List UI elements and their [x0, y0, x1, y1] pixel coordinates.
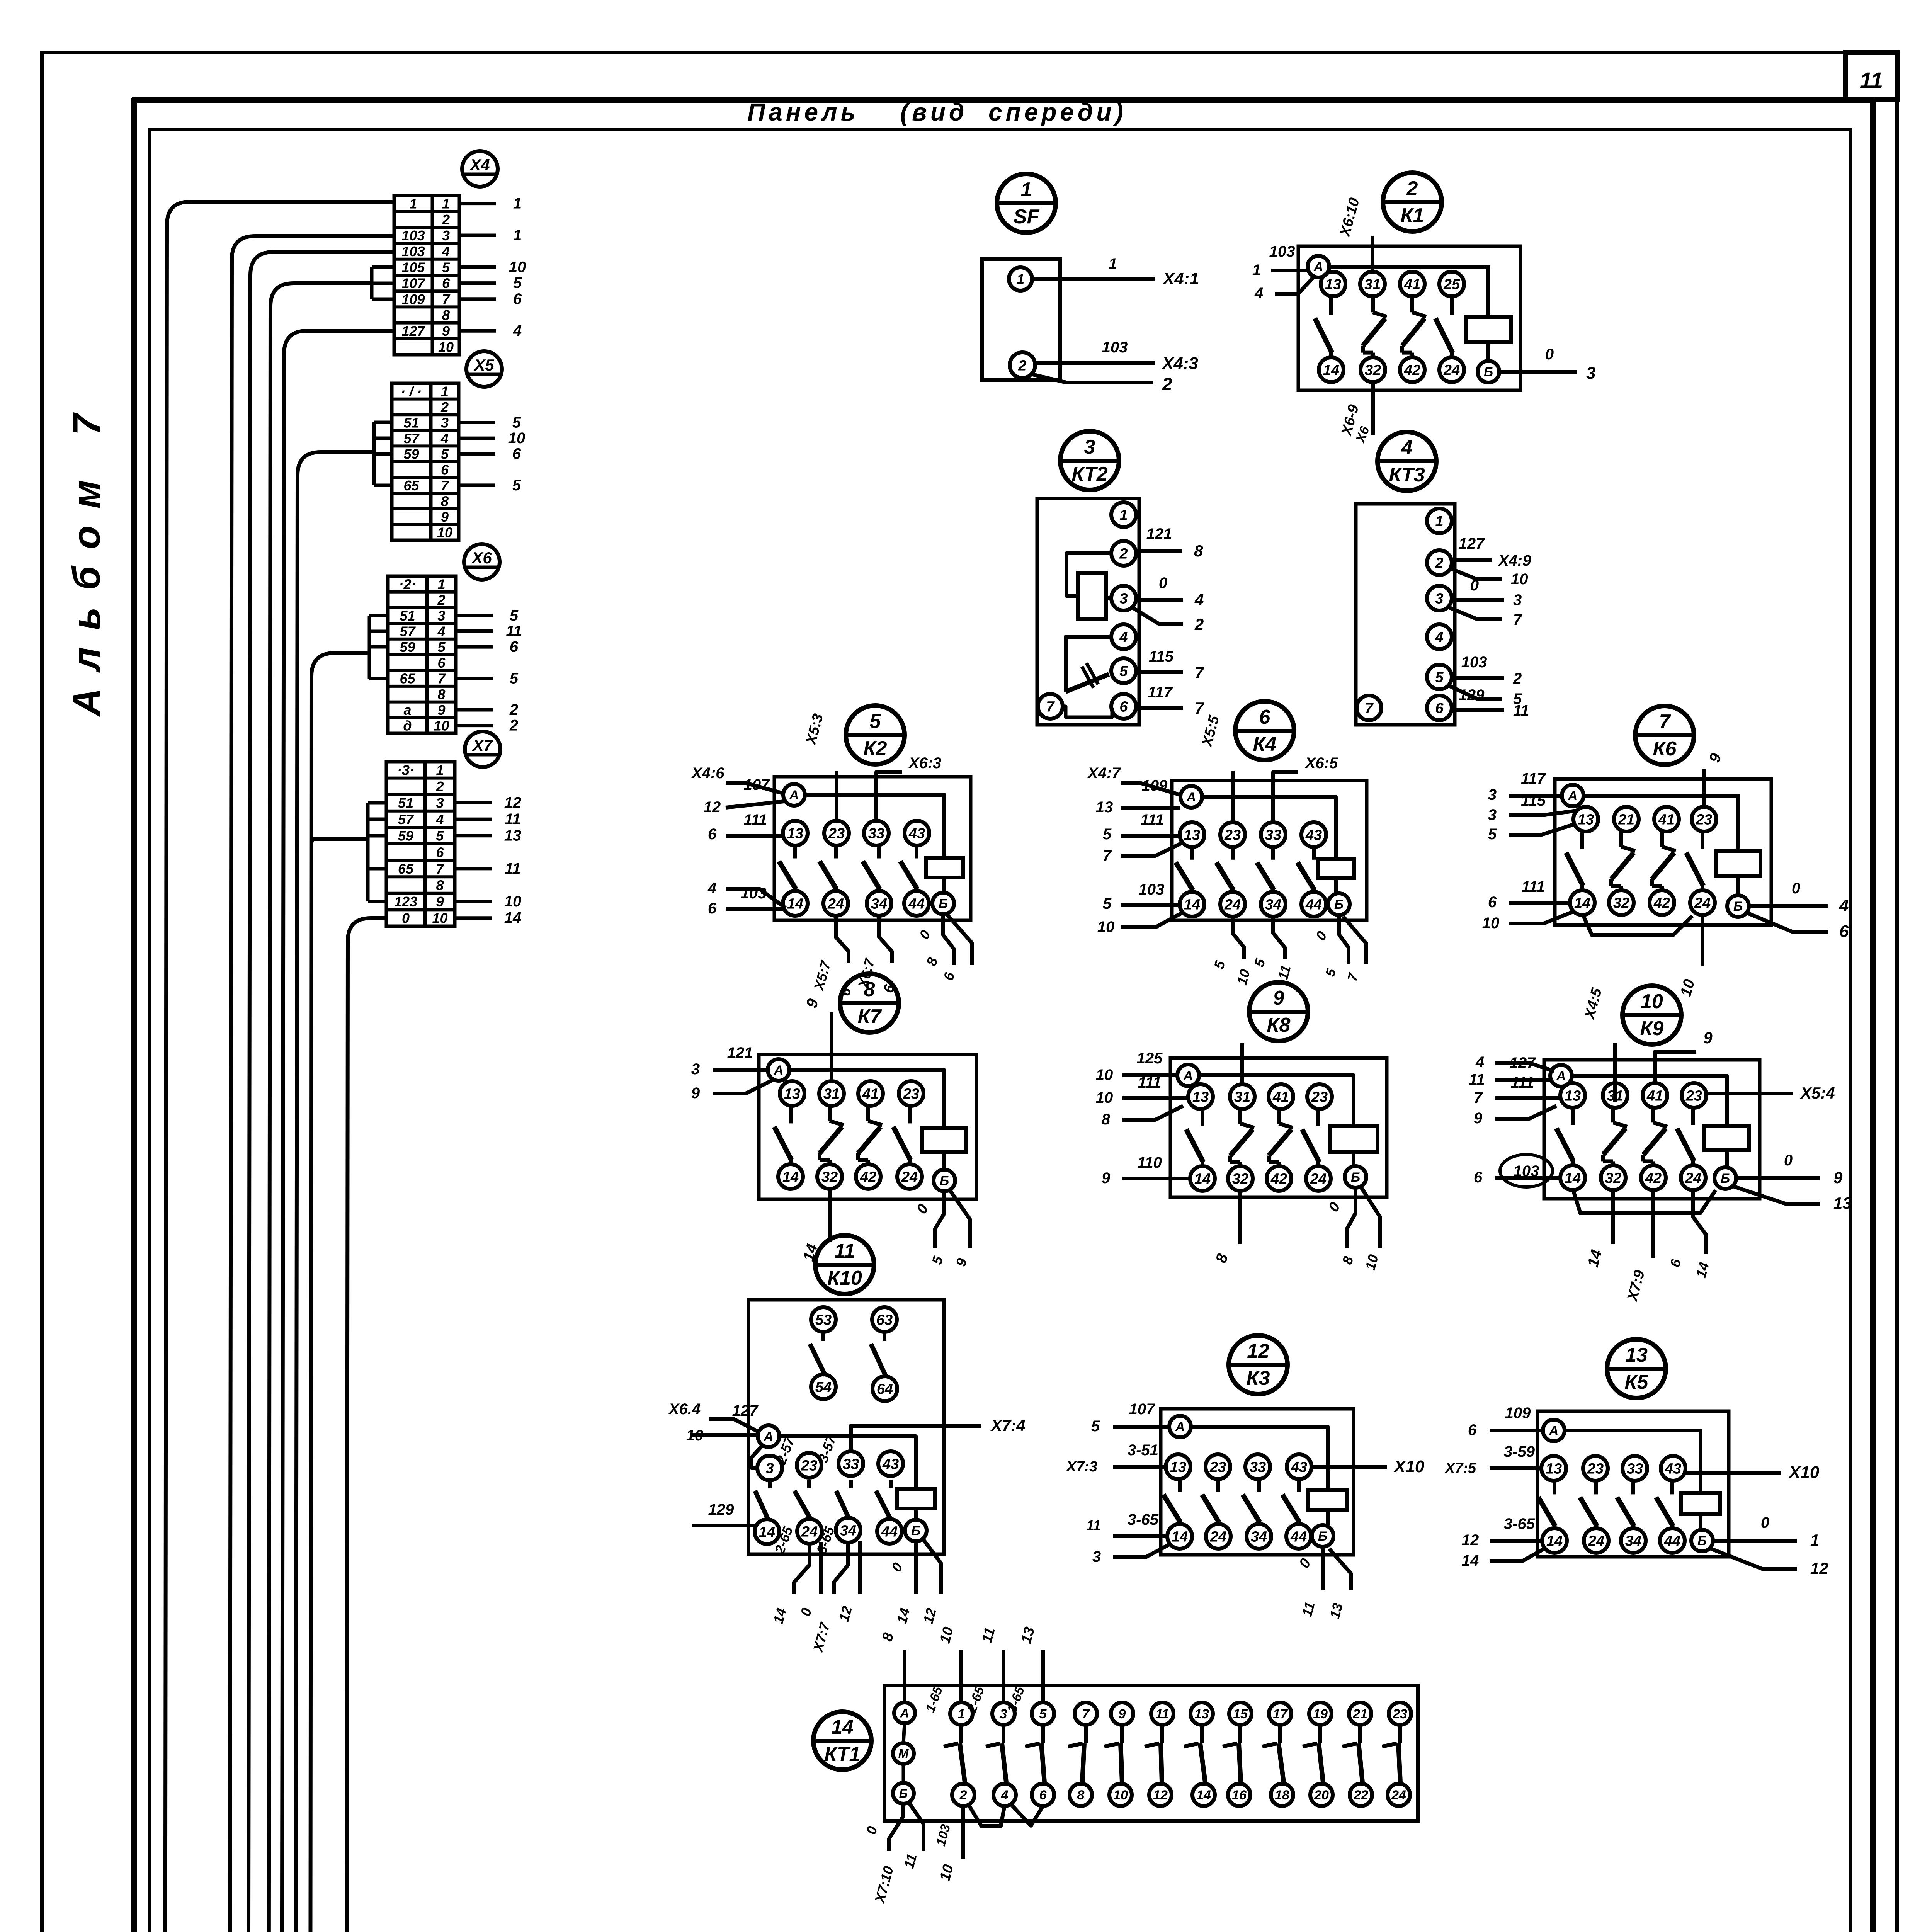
svg-text:10: 10	[1096, 1089, 1113, 1106]
svg-text:5: 5	[436, 828, 444, 844]
SF wire pin1 to X4:1	[1032, 277, 1155, 281]
К7 pin 23	[899, 1081, 923, 1106]
svg-text:А: А	[1186, 790, 1196, 804]
svg-text:7: 7	[442, 291, 451, 307]
KT2 pin 3	[1111, 586, 1136, 611]
K4 wire up from 23 with X5:5	[1231, 771, 1235, 824]
К8 wire A to coil	[1199, 1075, 1354, 1126]
svg-text:24: 24	[1588, 1533, 1604, 1549]
svg-text:К1: К1	[1401, 204, 1424, 227]
К4 contact 3	[1271, 846, 1275, 860]
К3 pin 43	[1287, 1454, 1311, 1479]
svg-text:64: 64	[877, 1381, 893, 1398]
svg-text:4: 4	[1001, 1788, 1009, 1803]
K10 pin 53	[811, 1307, 836, 1332]
svg-text:А: А	[1556, 1069, 1566, 1083]
svg-text:Б: Б	[1697, 1534, 1707, 1548]
K6 left wires	[1509, 794, 1562, 798]
svg-text:5: 5	[441, 446, 449, 462]
К7 pin 32	[817, 1164, 842, 1189]
KT1 pin 5	[1032, 1702, 1054, 1725]
svg-text:5: 5	[1435, 670, 1444, 686]
K7 wires from B	[935, 1191, 944, 1248]
K6 lower link 14 to 24	[1582, 913, 1692, 935]
K10 pin 3	[757, 1456, 782, 1480]
K9 wire up from 31 with X4:5	[1613, 1043, 1617, 1102]
svg-text:110: 110	[1137, 1154, 1162, 1171]
svg-text:115: 115	[1521, 792, 1546, 809]
K6 wires from B	[1749, 904, 1828, 908]
svg-text:X10: X10	[1788, 1463, 1820, 1482]
К9 pin 31	[1603, 1083, 1628, 1108]
К9 pin 13	[1560, 1083, 1585, 1108]
svg-text:43: 43	[1305, 827, 1322, 844]
svg-text:А: А	[764, 1429, 774, 1444]
svg-text:14: 14	[1172, 1529, 1188, 1545]
svg-text:59: 59	[403, 446, 419, 462]
svg-text:109: 109	[1505, 1405, 1531, 1422]
svg-text:К5: К5	[1625, 1371, 1649, 1393]
K1 wire from B with 0 3	[1499, 370, 1577, 374]
К1 pin 41	[1400, 272, 1425, 296]
svg-text:А: А	[1175, 1420, 1185, 1434]
К3 contact 3	[1257, 1478, 1261, 1492]
svg-text:13: 13	[1194, 1707, 1209, 1721]
К5 contact 2	[1594, 1480, 1598, 1494]
svg-text:103: 103	[1461, 654, 1487, 671]
svg-text:51: 51	[400, 608, 415, 624]
К1 pin 24	[1439, 357, 1464, 382]
svg-text:23: 23	[903, 1086, 919, 1102]
svg-text:3: 3	[1084, 436, 1095, 458]
KT1 contacts	[959, 1725, 963, 1743]
К8 pin 24	[1306, 1166, 1331, 1191]
svg-text:X10: X10	[1393, 1457, 1425, 1476]
svg-text:Б: Б	[1733, 899, 1743, 914]
terminal block id circle X7	[465, 731, 500, 767]
K8 wire down from 32	[1238, 1190, 1242, 1244]
К8 pin 41	[1269, 1084, 1293, 1109]
К8 contact 1	[1201, 1108, 1204, 1126]
svg-text:4: 4	[1194, 590, 1204, 609]
svg-text:105: 105	[401, 259, 425, 275]
svg-text:32: 32	[1613, 895, 1629, 912]
К2 contact 2	[834, 845, 838, 859]
К4 wire A to coil	[1202, 797, 1336, 859]
svg-text:5: 5	[510, 670, 519, 687]
svg-text:115: 115	[1149, 648, 1174, 665]
К2 pin 43	[905, 821, 929, 845]
svg-text:11: 11	[506, 622, 522, 639]
svg-text:129: 129	[708, 1501, 734, 1518]
svg-text:6: 6	[1468, 1422, 1477, 1439]
svg-text:7: 7	[1365, 701, 1374, 717]
svg-text:3: 3	[1488, 786, 1497, 803]
svg-text:11: 11	[1155, 1707, 1169, 1721]
svg-text:11: 11	[1513, 702, 1529, 719]
svg-text:X7:3: X7:3	[1066, 1459, 1097, 1475]
svg-text:11: 11	[505, 860, 521, 877]
svg-text:8: 8	[441, 493, 449, 509]
svg-text:5: 5	[513, 275, 522, 292]
svg-text:6: 6	[437, 655, 446, 671]
wire X4:6 to 104	[270, 283, 372, 306]
К5 pin 14	[1542, 1528, 1567, 1553]
svg-text:44: 44	[1305, 897, 1322, 913]
svg-text:33: 33	[868, 826, 884, 842]
svg-text:14: 14	[1546, 1533, 1563, 1549]
KT2 right labels	[1135, 549, 1182, 553]
svg-text:12: 12	[704, 799, 721, 816]
svg-text:23: 23	[1311, 1089, 1328, 1105]
К2 wire coil to B	[942, 878, 946, 893]
svg-text:24: 24	[901, 1169, 918, 1185]
К1 wire coil to B	[1486, 342, 1490, 361]
svg-text:121: 121	[1146, 526, 1172, 543]
KT1 pin 18	[1271, 1784, 1293, 1806]
svg-text:117: 117	[1148, 684, 1173, 701]
KT1 wires up from 1 3 5	[959, 1650, 963, 1702]
K10 pin 54	[811, 1374, 836, 1399]
svg-text:3: 3	[1092, 1548, 1101, 1565]
svg-text:X4: X4	[469, 156, 490, 174]
К7 pin 42	[856, 1164, 881, 1189]
svg-text:8: 8	[1194, 542, 1203, 560]
svg-text:1: 1	[1109, 255, 1117, 272]
svg-text:6: 6	[441, 462, 449, 478]
svg-text:107: 107	[401, 276, 425, 291]
svg-text:42: 42	[1653, 895, 1670, 912]
svg-text:13: 13	[1565, 1088, 1581, 1104]
svg-text:4: 4	[1401, 437, 1413, 459]
svg-text:8: 8	[864, 978, 875, 1001]
К9 pin 42	[1641, 1165, 1666, 1190]
svg-text:А: А	[1568, 789, 1578, 803]
svg-text:43: 43	[1291, 1459, 1307, 1476]
svg-text:3: 3	[442, 228, 450, 243]
K9 wire up from 41 with 9	[1655, 1052, 1696, 1085]
К7 pin 24	[897, 1164, 922, 1189]
svg-text:8: 8	[436, 878, 444, 893]
svg-text:X4:9: X4:9	[1498, 552, 1531, 569]
svg-text:2: 2	[1194, 615, 1204, 633]
svg-text:34: 34	[1251, 1529, 1267, 1545]
svg-text:127: 127	[1459, 535, 1485, 552]
svg-text:43: 43	[908, 826, 925, 842]
К1 pin A	[1308, 256, 1329, 277]
K9 lower link 14	[1573, 1189, 1716, 1213]
svg-text:13: 13	[1546, 1461, 1562, 1477]
К3 coil	[1308, 1490, 1347, 1510]
svg-text:3-65: 3-65	[1128, 1511, 1159, 1528]
svg-text:14: 14	[504, 910, 522, 927]
terminal block id circle X6	[464, 544, 500, 580]
svg-text:10: 10	[434, 718, 449, 734]
KT3 pin 7	[1357, 696, 1381, 720]
component id circle К10	[815, 1235, 874, 1294]
К7 pin B	[934, 1170, 955, 1191]
К8 pin B	[1345, 1166, 1366, 1188]
svg-text:5: 5	[512, 414, 521, 431]
svg-text:13: 13	[1096, 799, 1113, 816]
К1 pin 25	[1439, 272, 1464, 296]
KT2 wire 6-7 link	[1062, 706, 1112, 717]
К1 wire A to coil	[1329, 267, 1488, 317]
svg-text:2: 2	[1018, 358, 1026, 374]
svg-text:9: 9	[436, 894, 444, 910]
svg-text:53: 53	[815, 1312, 832, 1328]
svg-text:SF: SF	[1014, 206, 1040, 228]
svg-text:11: 11	[505, 811, 521, 828]
К4 pin 43	[1301, 822, 1326, 847]
KT2 pin 2	[1111, 541, 1136, 566]
К9 pin 32	[1601, 1165, 1626, 1190]
svg-text:32: 32	[1232, 1171, 1248, 1187]
K10 pin 34	[836, 1518, 861, 1543]
К4 pin 24	[1220, 892, 1245, 917]
К3 pin B	[1312, 1525, 1333, 1547]
svg-text:32: 32	[821, 1169, 838, 1185]
svg-text:34: 34	[1265, 897, 1281, 913]
svg-text:14: 14	[1196, 1788, 1211, 1803]
svg-text:5: 5	[1103, 895, 1112, 912]
K2 wires below 24 34	[836, 914, 849, 963]
К7 contact 1	[789, 1105, 793, 1123]
K2 left wires	[726, 783, 784, 794]
К1 coil	[1466, 317, 1511, 342]
svg-text:14: 14	[1323, 362, 1339, 379]
K1 wire down from 32 with X6-9	[1371, 381, 1375, 435]
KT2 coil	[1078, 573, 1106, 619]
K10 pin 33	[838, 1451, 863, 1476]
svg-text:9: 9	[437, 702, 445, 718]
svg-text:103: 103	[741, 885, 767, 902]
К8 pin 42	[1267, 1166, 1291, 1191]
svg-text:3: 3	[1586, 364, 1595, 383]
svg-text:X4:7: X4:7	[1087, 765, 1121, 782]
KT1 pin 12	[1149, 1784, 1172, 1806]
svg-text:Б: Б	[1721, 1171, 1730, 1186]
К7 wire A to coil	[789, 1070, 944, 1128]
KT1 pin 2	[952, 1784, 975, 1806]
svg-text:2: 2	[509, 701, 518, 718]
К6 contact 3	[1660, 831, 1664, 847]
KT1 wire below 2	[961, 1806, 965, 1859]
svg-text:42: 42	[1404, 362, 1420, 379]
KT1 pin B	[893, 1783, 914, 1804]
svg-text:2: 2	[437, 592, 445, 608]
svg-text:7: 7	[1103, 847, 1112, 864]
K9 wire down from 32	[1611, 1189, 1615, 1244]
svg-text:10: 10	[504, 893, 522, 910]
svg-text:5: 5	[1103, 826, 1112, 843]
svg-text:X6.4: X6.4	[668, 1401, 701, 1418]
svg-text:65: 65	[403, 478, 419, 493]
svg-text:103: 103	[1269, 243, 1295, 260]
svg-text:23: 23	[1392, 1707, 1407, 1721]
svg-text:6: 6	[1488, 894, 1497, 911]
К9 wire coil to B	[1725, 1150, 1729, 1167]
svg-text:Альбом 7: Альбом 7	[65, 397, 108, 717]
svg-text:Б: Б	[1334, 897, 1344, 912]
svg-text:13: 13	[1192, 1089, 1209, 1105]
KT3 pin 2	[1427, 550, 1452, 575]
К5 pin 44	[1660, 1528, 1685, 1553]
svg-text:6: 6	[708, 826, 717, 843]
svg-text:129: 129	[1459, 687, 1485, 704]
KT1 pin A	[894, 1702, 915, 1723]
K1 left wires: 103 from X4	[1271, 269, 1308, 272]
svg-text:X7: X7	[472, 736, 493, 754]
K9 wires from B	[1736, 1176, 1820, 1180]
K10 wire coil to B	[914, 1509, 918, 1520]
svg-text:4: 4	[442, 243, 450, 259]
svg-text:24: 24	[1210, 1529, 1226, 1545]
svg-text:59: 59	[400, 639, 415, 655]
svg-text:1: 1	[1810, 1531, 1819, 1549]
К9 contact 3	[1651, 1107, 1655, 1122]
svg-text:2: 2	[1119, 546, 1128, 562]
svg-text:59: 59	[398, 828, 413, 844]
К3 pin 34	[1247, 1524, 1271, 1549]
svg-text:13: 13	[1170, 1459, 1186, 1476]
svg-text:10: 10	[432, 910, 447, 926]
component id circle К9	[1622, 986, 1681, 1044]
component id circle К4	[1235, 701, 1294, 760]
wire X7 bracket joining bundle	[311, 839, 368, 844]
svg-text:13: 13	[1625, 1344, 1648, 1366]
svg-text:23: 23	[801, 1458, 817, 1474]
svg-text:1: 1	[409, 196, 417, 212]
svg-text:111: 111	[744, 811, 767, 828]
KT1 pin 10	[1109, 1784, 1132, 1806]
svg-text:10: 10	[1113, 1788, 1128, 1803]
KT1 link 4-6 below	[1011, 1804, 1043, 1826]
KT1 pin 24	[1388, 1784, 1410, 1806]
svg-text:14: 14	[787, 896, 803, 912]
К3 pin A	[1169, 1416, 1191, 1437]
svg-text:51: 51	[403, 415, 419, 431]
svg-text:1: 1	[513, 227, 522, 244]
svg-text:54: 54	[815, 1379, 832, 1396]
К5 pin 34	[1621, 1528, 1646, 1553]
svg-text:Б: Б	[940, 1173, 949, 1188]
wire X4:9 to K1-16	[284, 331, 394, 354]
KT1 pin 20	[1310, 1784, 1333, 1806]
K9 wire right from 23 with X5:4	[1705, 1092, 1793, 1095]
K9 wires below 24	[1693, 1189, 1706, 1254]
svg-text:3-59: 3-59	[1504, 1443, 1535, 1460]
KT1 pin 21	[1349, 1702, 1371, 1725]
K10 pin A	[758, 1425, 779, 1447]
X4 bracket rows 5-7	[372, 265, 394, 269]
К3 wire A to coil	[1191, 1427, 1328, 1490]
svg-text:10: 10	[1482, 915, 1500, 932]
KT2 wire coil to 3	[1106, 596, 1112, 600]
X5 bracket rows 3-5,7	[374, 421, 392, 424]
svg-text:4: 4	[440, 430, 449, 446]
К3 wire coil to B	[1326, 1510, 1330, 1525]
svg-text:X4:1: X4:1	[1162, 269, 1199, 288]
svg-text:127: 127	[401, 323, 425, 339]
sheet number box 11	[1845, 53, 1897, 100]
KT2 pin 4	[1111, 624, 1136, 649]
svg-text:24: 24	[801, 1524, 818, 1540]
K9 circled 103	[1500, 1155, 1553, 1187]
svg-text:9: 9	[442, 323, 450, 339]
terminal block id circle X4	[462, 151, 498, 187]
svg-text:109: 109	[401, 291, 425, 307]
K7 wire up from 31	[830, 1012, 833, 1083]
SF wire pin2 lower	[1031, 374, 1153, 383]
svg-text:0: 0	[1545, 346, 1554, 363]
К6 pin 32	[1609, 890, 1634, 915]
К2 contact 4	[915, 845, 918, 859]
K3 left wires	[1113, 1425, 1169, 1429]
KT1 pin 15	[1229, 1702, 1252, 1725]
svg-text:1: 1	[1017, 271, 1024, 287]
svg-text:32: 32	[1365, 362, 1381, 379]
К8 pin A	[1177, 1065, 1199, 1086]
svg-text:1: 1	[442, 196, 450, 212]
K10 left wire 129 to 14	[692, 1524, 756, 1527]
svg-text:31: 31	[1364, 277, 1381, 293]
svg-text:А: А	[900, 1706, 909, 1720]
svg-text:А: А	[1313, 260, 1323, 274]
К7 coil	[922, 1128, 966, 1152]
svg-text:5: 5	[1488, 826, 1497, 843]
svg-text:41: 41	[862, 1086, 879, 1102]
component id circle КТ1	[813, 1712, 871, 1770]
svg-text:103: 103	[1102, 339, 1128, 356]
svg-text:9: 9	[1119, 1707, 1126, 1721]
svg-text:6: 6	[1039, 1788, 1047, 1803]
К6 pin 14	[1570, 890, 1595, 915]
svg-text:4: 4	[435, 811, 444, 827]
К9 wire A to coil	[1572, 1076, 1727, 1126]
svg-text:103: 103	[401, 228, 425, 243]
К7 pin 13	[780, 1081, 804, 1106]
K10 wire 33 up to X7:4	[851, 1426, 981, 1452]
svg-text:41: 41	[1658, 812, 1675, 828]
svg-text:7: 7	[1195, 663, 1204, 682]
К1 contact 2	[1371, 296, 1375, 312]
K7 left wires	[713, 1068, 768, 1072]
K6 wire down from 24	[1701, 913, 1704, 966]
svg-text:44: 44	[1290, 1529, 1307, 1545]
KT2 pin 1	[1111, 502, 1136, 527]
svg-text:1: 1	[437, 576, 445, 592]
svg-text:21: 21	[1352, 1707, 1367, 1721]
svg-text:X6:3: X6:3	[908, 755, 942, 772]
svg-text:10: 10	[1641, 990, 1663, 1013]
svg-text:11: 11	[834, 1240, 855, 1262]
К9 pin 41	[1643, 1083, 1667, 1108]
svg-text:11: 11	[1860, 68, 1883, 93]
svg-text:31: 31	[823, 1086, 840, 1102]
svg-text:10: 10	[1096, 1066, 1113, 1083]
wire X4:1 to H22	[167, 202, 394, 225]
svg-text:5: 5	[437, 639, 446, 655]
К8 contact 2	[1238, 1108, 1242, 1124]
KT3 right labels	[1451, 558, 1492, 562]
K4 left wires	[1121, 783, 1182, 795]
KT2 pin 6	[1111, 694, 1136, 719]
KT1 pin 8	[1070, 1784, 1092, 1806]
К7 contact 2	[828, 1105, 832, 1121]
svg-text:5: 5	[1039, 1707, 1047, 1721]
svg-text:К9: К9	[1640, 1017, 1664, 1040]
